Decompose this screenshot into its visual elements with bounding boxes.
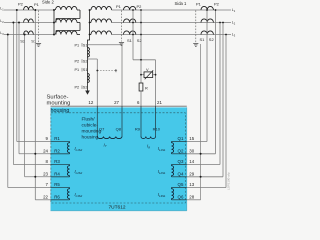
svg-text:R3: R3 (54, 159, 60, 164)
svg-text:R: R (145, 86, 148, 91)
svg-text:LSP2190-afp: LSP2190-afp (227, 172, 231, 190)
svg-text:28: 28 (189, 194, 194, 199)
svg-text:Q1: Q1 (178, 136, 184, 141)
svg-text:P2: P2 (18, 1, 24, 6)
svg-text:12: 12 (88, 100, 93, 105)
svg-text:P2: P2 (75, 60, 80, 64)
svg-text:mounting: mounting (47, 101, 71, 107)
svg-text:Q2: Q2 (178, 149, 184, 154)
svg-text:29: 29 (189, 171, 194, 176)
svg-text:30: 30 (189, 148, 194, 153)
svg-text:P1: P1 (34, 2, 40, 7)
svg-text:Side 2: Side 2 (42, 0, 55, 4)
svg-text:S2: S2 (83, 60, 88, 64)
svg-text:23: 23 (43, 172, 48, 177)
svg-text:13: 13 (189, 182, 194, 187)
svg-text:S2: S2 (137, 38, 143, 43)
svg-text:Q5: Q5 (178, 182, 184, 187)
svg-text:15: 15 (189, 136, 194, 141)
svg-text:Q4: Q4 (178, 172, 184, 177)
svg-text:Sida 1: Sida 1 (175, 1, 188, 6)
svg-text:Q7: Q7 (99, 126, 105, 131)
svg-text:R2: R2 (54, 149, 60, 154)
svg-text:P2: P2 (137, 4, 143, 9)
svg-text:R10: R10 (153, 126, 161, 131)
svg-text:V: V (146, 67, 149, 72)
svg-text:Q6: Q6 (178, 195, 184, 200)
svg-text:Q3: Q3 (178, 159, 184, 164)
svg-text:27: 27 (114, 100, 119, 105)
svg-text:housing: housing (82, 135, 99, 141)
svg-text:S1: S1 (127, 38, 133, 43)
svg-text:22: 22 (43, 195, 48, 200)
svg-text:S2: S2 (209, 37, 215, 42)
svg-text:R9: R9 (135, 126, 141, 131)
svg-text:R4: R4 (54, 172, 60, 177)
svg-text:P2: P2 (214, 2, 220, 7)
svg-text:S1: S1 (200, 37, 206, 42)
svg-text:S2: S2 (20, 39, 26, 44)
svg-text:14: 14 (189, 159, 194, 164)
svg-text:S1: S1 (83, 43, 88, 47)
svg-text:P1: P1 (116, 4, 122, 9)
svg-text:21: 21 (157, 100, 162, 105)
svg-text:P1: P1 (75, 68, 80, 72)
svg-text:24: 24 (43, 149, 48, 154)
svg-text:Flush/: Flush/ (82, 117, 96, 123)
svg-text:P1: P1 (75, 43, 80, 47)
svg-text:housing: housing (51, 108, 70, 114)
svg-text:Q8: Q8 (116, 126, 122, 131)
svg-text:R5: R5 (54, 182, 60, 187)
svg-text:P1: P1 (196, 2, 202, 7)
svg-text:S2: S2 (83, 86, 88, 90)
svg-text:S1: S1 (83, 68, 88, 72)
svg-text:P2: P2 (75, 86, 80, 90)
svg-text:S1: S1 (31, 39, 37, 44)
svg-text:cubicle-: cubicle- (82, 123, 99, 129)
svg-text:R6: R6 (54, 195, 60, 200)
svg-text:7UT612: 7UT612 (109, 204, 126, 210)
svg-text:R1: R1 (54, 136, 60, 141)
